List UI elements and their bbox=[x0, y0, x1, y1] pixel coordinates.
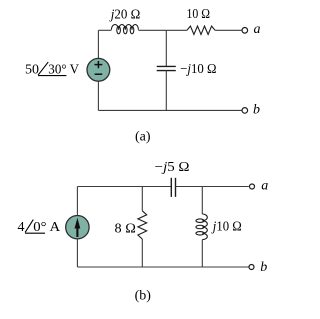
svg-text:4: 4 bbox=[18, 220, 25, 235]
inductor L1 j20 (a) bbox=[111, 24, 138, 33]
angle symbol (b) bbox=[25, 220, 45, 234]
svg-text:j20 Ω: j20 Ω bbox=[109, 7, 140, 22]
bottom wire (b) bbox=[77, 266, 248, 268]
svg-text:8 Ω: 8 Ω bbox=[115, 221, 136, 236]
inductor L2 j10 (b) bbox=[196, 214, 207, 240]
capacitor C1 -j10 (a) bbox=[157, 66, 176, 70]
resistor R2 8 Ohm (b) bbox=[138, 211, 147, 239]
wire: left top to source (a) bbox=[97, 30, 99, 58]
8 Ohm branch: bottom wire bbox=[141, 239, 143, 267]
node: middle junction, wire down to capacitor bbox=[165, 30, 167, 66]
top wire left segment (b) bbox=[77, 186, 171, 188]
j10 branch: top wire bbox=[201, 187, 203, 215]
top wire right segment (b) bbox=[176, 186, 249, 188]
bottom wire (a) bbox=[98, 109, 241, 111]
angle symbol (a) bbox=[38, 62, 66, 76]
wire: top-middle segment (a) bbox=[138, 29, 187, 31]
terminal b (a) bbox=[242, 108, 248, 114]
svg-text:a: a bbox=[254, 22, 261, 37]
terminal b (b) bbox=[249, 265, 254, 270]
svg-text:50: 50 bbox=[25, 63, 39, 78]
wire: current source to bottom-left corner (b) bbox=[76, 239, 78, 267]
svg-text:b: b bbox=[253, 102, 260, 117]
resistor R1 10 Ohm (a) bbox=[187, 26, 215, 34]
j10 branch: bottom wire bbox=[201, 240, 203, 267]
svg-text:10 Ω: 10 Ω bbox=[187, 7, 211, 22]
capacitor C2 -j5 (b) bbox=[171, 178, 175, 197]
svg-text:b: b bbox=[260, 260, 267, 275]
current source I1 4/0deg (b) bbox=[66, 216, 89, 239]
wire: top-left segment (a) bbox=[98, 29, 111, 31]
svg-text:a: a bbox=[261, 179, 268, 194]
svg-text:j10 Ω: j10 Ω bbox=[211, 219, 242, 234]
voltage source V1 50/30deg (a) bbox=[87, 58, 110, 81]
wire: source to bottom-left corner (a) bbox=[97, 81, 99, 110]
svg-text:(a): (a) bbox=[135, 130, 151, 145]
8 Ohm branch: top wire bbox=[141, 187, 143, 211]
svg-text:(b): (b) bbox=[135, 288, 152, 303]
terminal a (a) bbox=[242, 28, 248, 34]
terminal a (b) bbox=[250, 184, 255, 189]
wire: resistor to terminal a bbox=[215, 29, 241, 31]
wire: capacitor to bottom (a) bbox=[165, 71, 167, 111]
svg-text:−j5 Ω: −j5 Ω bbox=[155, 160, 190, 175]
wire: left top to current source (b) bbox=[76, 187, 78, 216]
svg-text:−j10 Ω: −j10 Ω bbox=[180, 62, 216, 77]
arrow of current source bbox=[76, 228, 78, 237]
